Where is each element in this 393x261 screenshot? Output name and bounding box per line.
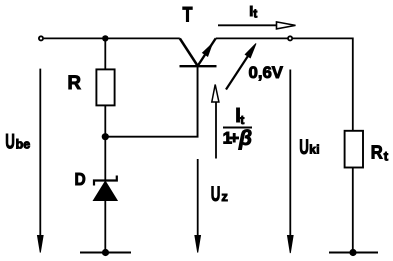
wire: base wire from node up to transistor base xyxy=(105,66,197,137)
svg-text:U: U xyxy=(211,183,221,206)
resistor R xyxy=(96,69,114,105)
transistor T base lead down xyxy=(197,66,199,137)
svg-text:U: U xyxy=(5,130,15,153)
svg-text:U: U xyxy=(299,136,309,159)
junction dot on top rail at R xyxy=(102,35,108,41)
wire: top rail to Rt corner xyxy=(293,38,353,130)
svg-text:D: D xyxy=(75,169,86,189)
transistor T emitter lead xyxy=(198,38,216,66)
fraction bar xyxy=(223,127,252,129)
wire: R top lead xyxy=(104,38,106,69)
transistor T base bar xyxy=(180,65,217,67)
wire: Rt bottom lead xyxy=(352,168,354,253)
wire: zener top lead xyxy=(104,137,106,181)
svg-text:+: + xyxy=(229,128,239,147)
svg-text:t: t xyxy=(253,9,257,21)
node dot (R / D / base junction) xyxy=(102,133,109,140)
wire: top rail right (emitter to output terminal) xyxy=(216,37,288,39)
input terminal (open circle, left) xyxy=(39,36,43,40)
junction dot bottom left xyxy=(102,249,109,256)
svg-text:i: i xyxy=(316,142,319,156)
wire: zener bottom lead xyxy=(104,201,106,253)
bottom rail segment under D xyxy=(80,252,131,254)
arrow It/(1+beta) (open head, vertical up) xyxy=(215,102,217,159)
bottom rail segment under Rt xyxy=(329,252,378,254)
svg-text:be: be xyxy=(16,137,31,151)
output terminal (open circle) xyxy=(288,36,292,40)
zener diode D cathode bar with hooks xyxy=(94,176,117,186)
junction dot bottom right xyxy=(349,249,356,256)
transistor T emitter arrowhead xyxy=(203,44,213,57)
svg-text:z: z xyxy=(221,189,228,204)
svg-text:R: R xyxy=(371,142,383,163)
wire: top rail left (input to transistor collector) xyxy=(44,37,180,39)
voltage arrow Uki (filled head, down) xyxy=(289,70,291,237)
transistor T collector lead xyxy=(180,38,198,66)
voltage arrow Uz (filled head, down) xyxy=(197,159,199,237)
svg-text:k: k xyxy=(309,142,316,156)
svg-text:T: T xyxy=(183,3,193,26)
arrow 0,6V (filled head, diagonal) xyxy=(226,52,251,89)
svg-text:R: R xyxy=(68,72,82,94)
voltage arrow Ube (filled head, down) xyxy=(39,69,41,237)
current arrow It (open head) xyxy=(218,24,277,26)
resistor Rt xyxy=(345,131,363,168)
svg-text:t: t xyxy=(240,113,244,127)
svg-text:t: t xyxy=(384,148,389,163)
wire: R bottom lead xyxy=(104,105,106,136)
svg-text:0,6V: 0,6V xyxy=(249,63,284,82)
zener diode D triangle xyxy=(93,181,117,200)
svg-text:β: β xyxy=(238,127,252,150)
